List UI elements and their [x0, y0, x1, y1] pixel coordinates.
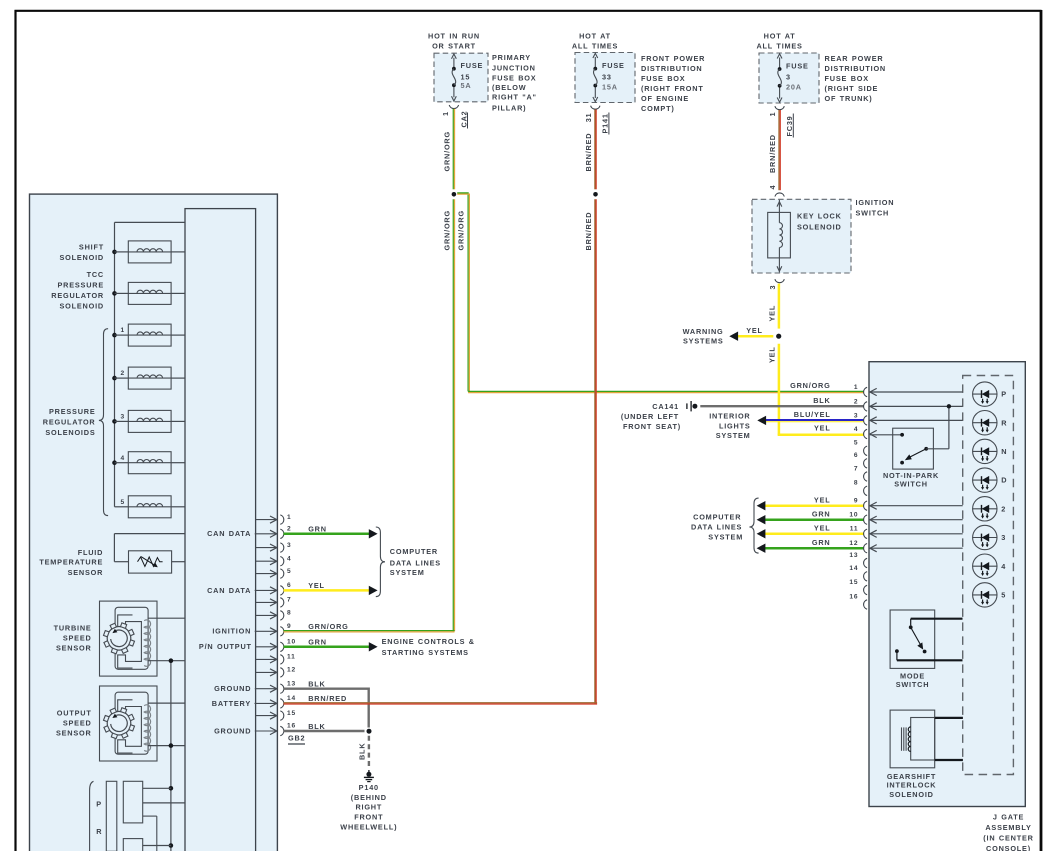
svg-text:CONSOLE): CONSOLE) [986, 844, 1031, 851]
svg-text:DISTRIBUTION: DISTRIBUTION [641, 64, 703, 73]
ignition switch box [752, 199, 851, 273]
svg-text:SPEED: SPEED [63, 718, 92, 727]
svg-text:BATTERY: BATTERY [212, 699, 251, 708]
J gate pin 12 [849, 540, 962, 553]
svg-text:R: R [96, 827, 102, 836]
output speed sensor [56, 686, 185, 761]
TCM pin 11 [256, 654, 296, 665]
svg-text:8: 8 [287, 610, 291, 617]
TCM internal common rail [170, 661, 172, 851]
svg-text:DISTRIBUTION: DISTRIBUTION [825, 64, 887, 73]
wire YEL down then right to J gate pin 4 [778, 344, 781, 435]
svg-text:14: 14 [287, 695, 296, 702]
LED 5 [973, 583, 1007, 607]
svg-text:5: 5 [854, 440, 858, 447]
svg-text:PILLAR): PILLAR) [492, 104, 526, 113]
svg-text:J GATE: J GATE [993, 813, 1024, 822]
svg-text:P: P [1001, 390, 1007, 399]
svg-text:CAN DATA: CAN DATA [207, 586, 251, 595]
wire BLK from TCM pin 13 [284, 689, 369, 728]
svg-text:PRESSURE: PRESSURE [57, 281, 104, 290]
LED D [973, 468, 1008, 492]
svg-text:YEL: YEL [814, 496, 831, 505]
svg-text:1: 1 [854, 384, 858, 391]
TCM pin 4 [256, 555, 292, 566]
J gate pin 3 [854, 412, 963, 425]
TCC pressure regulator solenoid [51, 270, 185, 311]
svg-text:INTERLOCK: INTERLOCK [887, 781, 937, 790]
svg-text:RIGHT "A": RIGHT "A" [492, 93, 537, 102]
svg-text:YEL: YEL [308, 581, 325, 590]
splice on YEL [776, 334, 781, 339]
wire YEL from ignition switch to splice [778, 284, 781, 329]
svg-text:BLU/YEL: BLU/YEL [794, 410, 831, 419]
TCM pin 2 [207, 525, 291, 538]
junction on pin 2 wire [947, 404, 951, 408]
svg-text:12: 12 [287, 667, 296, 674]
TCM pin 10 [199, 638, 296, 651]
fuse F15 5A symbol [453, 58, 455, 69]
svg-text:HOT AT: HOT AT [764, 31, 796, 40]
wire BRN/RED from fuse F3 to ignition switch [778, 110, 780, 190]
fuse box F2 (front power distribution fuse box) [575, 53, 635, 103]
J gate pin 8 [854, 480, 867, 496]
wire GRN/ORG from TCM pin 9 (horizontal) [284, 630, 455, 632]
svg-text:12: 12 [849, 540, 858, 547]
connector at fuse F15 output, pin 1, net CA2 [449, 105, 458, 109]
J gate pin 5 [854, 440, 867, 456]
TCM pin 6 [207, 582, 291, 595]
TCM pin 8 [256, 610, 292, 621]
svg-text:LIGHTS: LIGHTS [719, 422, 751, 431]
svg-text:BRN/RED: BRN/RED [584, 212, 593, 251]
svg-text:HOT AT: HOT AT [579, 31, 611, 40]
svg-text:FLUID: FLUID [78, 548, 103, 557]
svg-text:11: 11 [287, 654, 296, 661]
svg-text:16: 16 [287, 723, 296, 730]
svg-text:SENSOR: SENSOR [56, 728, 92, 737]
LED 2 [973, 497, 1007, 521]
LED 3 [973, 525, 1007, 549]
fuse box F3 (rear power distribution fuse box) [759, 53, 819, 103]
svg-text:6: 6 [854, 452, 858, 459]
svg-text:GRN: GRN [308, 525, 327, 534]
TCM pin 13 [214, 680, 296, 693]
svg-text:20A: 20A [786, 83, 802, 92]
pressure regulator solenoid 5 [115, 496, 186, 518]
svg-text:GROUND: GROUND [214, 726, 251, 735]
fuse box F1 (primary junction fuse box) [434, 53, 488, 102]
svg-text:D: D [1001, 476, 1007, 485]
svg-text:IGNITION: IGNITION [212, 627, 251, 636]
svg-text:SOLENOID: SOLENOID [59, 253, 104, 262]
gear switch contact P [123, 781, 142, 823]
svg-text:GRN/ORG: GRN/ORG [443, 131, 452, 171]
LED 4 [973, 554, 1007, 578]
J gate pin 11 [850, 526, 963, 539]
svg-text:REGULATOR: REGULATOR [43, 418, 96, 427]
J gate pin 6 [854, 452, 867, 468]
svg-text:3: 3 [287, 542, 291, 549]
TCM pin 14 [212, 695, 296, 708]
wire GRN from J gate pin 10 [765, 518, 864, 521]
svg-text:FRONT POWER: FRONT POWER [641, 54, 705, 63]
svg-text:(BELOW: (BELOW [492, 83, 526, 92]
svg-text:15: 15 [849, 579, 858, 586]
wire BRN/RED down to TCM pin 14 [594, 199, 596, 703]
svg-text:SHIFT: SHIFT [79, 242, 104, 251]
svg-text:BLK: BLK [308, 722, 325, 731]
svg-text:15: 15 [287, 710, 296, 717]
TCM pin 3 [256, 542, 292, 553]
TCM pin 1 [256, 514, 292, 525]
svg-text:PRESSURE: PRESSURE [49, 407, 96, 416]
svg-text:GROUND: GROUND [214, 684, 251, 693]
svg-text:5A: 5A [461, 81, 472, 90]
svg-text:11: 11 [850, 526, 859, 533]
svg-text:4: 4 [854, 426, 858, 433]
svg-text:HOT IN RUN: HOT IN RUN [428, 31, 480, 40]
svg-text:2: 2 [287, 525, 291, 532]
svg-text:FUSE: FUSE [461, 61, 484, 70]
svg-text:SOLENOIDS: SOLENOIDS [45, 428, 95, 437]
svg-text:R: R [1001, 418, 1007, 427]
J gate pin 7 [854, 465, 867, 481]
solenoid supply bus [115, 221, 186, 223]
TCM outer box [30, 194, 278, 851]
wire GRN/ORG from fuse F15 to splice [452, 109, 454, 190]
svg-text:9: 9 [287, 623, 291, 630]
svg-text:BRN/RED: BRN/RED [308, 694, 347, 703]
svg-text:16: 16 [849, 593, 858, 600]
J gate pin 16 [849, 593, 867, 609]
svg-text:9: 9 [854, 498, 858, 505]
TCM pin 9 [212, 623, 291, 636]
connector at fuse F3 output, pin 1, net FC39 [775, 106, 784, 110]
svg-text:GRN/ORG: GRN/ORG [443, 210, 452, 250]
svg-text:3: 3 [854, 412, 858, 419]
J gate pin 15 [849, 579, 867, 595]
svg-text:OR START: OR START [432, 42, 476, 51]
svg-text:P: P [96, 800, 102, 809]
wire BLU/YEL from J gate pin 3 to interior lights system [766, 419, 864, 421]
svg-text:7: 7 [287, 597, 291, 604]
svg-text:FRONT: FRONT [354, 813, 383, 822]
key lock solenoid U1 [768, 212, 791, 258]
wire BRN/RED from TCM pin 14 (horizontal) [284, 702, 598, 704]
svg-text:FC39: FC39 [785, 115, 794, 136]
pin 3 of ignition switch [775, 279, 784, 283]
svg-text:COMPT): COMPT) [641, 104, 675, 113]
svg-text:CAN DATA: CAN DATA [207, 529, 251, 538]
svg-text:SYSTEM: SYSTEM [708, 533, 743, 542]
svg-text:GRN: GRN [308, 638, 327, 647]
svg-text:REAR POWER: REAR POWER [825, 54, 884, 63]
svg-text:SOLENOID: SOLENOID [797, 223, 842, 232]
svg-text:10: 10 [849, 512, 858, 519]
svg-text:BRN/RED: BRN/RED [768, 134, 777, 173]
svg-text:ASSEMBLY: ASSEMBLY [985, 823, 1031, 832]
fuse F3 20A symbol [779, 58, 781, 70]
J gate pin 10 [849, 512, 962, 525]
svg-text:INTERIOR: INTERIOR [709, 412, 750, 421]
svg-text:(RIGHT FRONT: (RIGHT FRONT [641, 84, 704, 93]
svg-text:4: 4 [121, 455, 125, 462]
svg-text:KEY LOCK: KEY LOCK [797, 211, 842, 220]
svg-text:GRN: GRN [812, 510, 831, 519]
svg-text:(IN CENTER: (IN CENTER [983, 834, 1033, 843]
svg-text:TEMPERATURE: TEMPERATURE [39, 558, 103, 567]
TCM pin 7 [256, 597, 292, 608]
svg-text:SPEED: SPEED [63, 634, 92, 643]
svg-text:FUSE BOX: FUSE BOX [825, 74, 869, 83]
pressure regulator solenoids brace [99, 329, 108, 516]
svg-text:SENSOR: SENSOR [56, 644, 92, 653]
svg-text:CA2: CA2 [459, 111, 468, 128]
svg-text:SWITCH: SWITCH [856, 209, 890, 218]
svg-text:GRN/ORG: GRN/ORG [457, 210, 466, 250]
svg-text:SYSTEMS: SYSTEMS [683, 337, 723, 346]
fuse F33 15A symbol [594, 57, 596, 69]
svg-text:3: 3 [786, 73, 791, 82]
svg-text:IGNITION: IGNITION [856, 198, 895, 207]
wire YEL from J gate pin 9 to computer data lines [765, 504, 864, 507]
svg-text:FUSE: FUSE [602, 61, 625, 70]
J gate pin 14 [849, 565, 867, 581]
svg-text:31: 31 [584, 113, 593, 123]
svg-text:FUSE BOX: FUSE BOX [641, 74, 685, 83]
TCM pin 12 [256, 667, 296, 678]
svg-text:YEL: YEL [768, 346, 777, 363]
svg-text:N: N [1001, 447, 1007, 456]
svg-text:TURBINE: TURBINE [54, 624, 92, 633]
svg-text:FUSE BOX: FUSE BOX [492, 73, 536, 82]
svg-text:5: 5 [287, 568, 291, 575]
svg-text:15A: 15A [602, 82, 618, 91]
svg-text:CA141: CA141 [652, 402, 679, 411]
svg-text:4: 4 [287, 555, 291, 562]
pressure regulator solenoid 3 [112, 410, 185, 432]
svg-text:GRN/ORG: GRN/ORG [308, 622, 348, 631]
svg-text:WARNING: WARNING [683, 327, 724, 336]
svg-text:ALL TIMES: ALL TIMES [572, 42, 618, 51]
svg-text:REGULATOR: REGULATOR [51, 291, 104, 300]
svg-text:YEL: YEL [768, 305, 777, 322]
J gate pin 9 [854, 498, 963, 511]
shift solenoid [59, 241, 185, 263]
svg-text:3: 3 [768, 285, 777, 290]
computer data lines system brace (right) [749, 498, 758, 553]
TCM pin 15 [256, 710, 296, 721]
wire YEL to warning systems [738, 335, 774, 338]
svg-text:14: 14 [849, 565, 858, 572]
gear position switch bracket [90, 781, 94, 851]
wire GRN/ORG down to TCM pin 9 [452, 199, 454, 631]
svg-text:1: 1 [121, 327, 125, 334]
ground G1 (P140) [366, 772, 371, 777]
svg-text:SWITCH: SWITCH [894, 479, 928, 488]
connector CA141 [686, 403, 688, 409]
svg-text:BLK: BLK [358, 743, 367, 760]
gear selector common strip [106, 781, 117, 851]
svg-text:FRONT SEAT): FRONT SEAT) [623, 422, 681, 431]
svg-text:1: 1 [441, 111, 450, 116]
svg-text:GRN/ORG: GRN/ORG [790, 381, 830, 390]
svg-text:7: 7 [854, 465, 858, 472]
J gate internal dashed box [963, 376, 1014, 775]
svg-text:8: 8 [854, 480, 858, 487]
pressure regulator solenoid 1 [112, 324, 185, 346]
LED P [973, 382, 1007, 406]
svg-text:P/N OUTPUT: P/N OUTPUT [199, 642, 252, 651]
svg-text:BRN/RED: BRN/RED [584, 133, 593, 172]
wire GRN from TCM pin 10 to engine controls [284, 646, 370, 649]
svg-text:5: 5 [1001, 591, 1006, 600]
svg-text:4: 4 [1001, 562, 1006, 571]
svg-text:P140: P140 [359, 783, 379, 792]
splice of BLK ground wires [367, 729, 372, 734]
J gate pin 1 [854, 384, 963, 397]
J gate pin 13 [849, 552, 867, 568]
svg-text:(UNDER LEFT: (UNDER LEFT [621, 412, 679, 421]
svg-text:FUSE: FUSE [786, 62, 809, 71]
svg-text:2: 2 [1001, 504, 1006, 513]
wire BLK from connector CA141 to J gate pin 2 [700, 405, 863, 407]
pressure regulator solenoid 2 [112, 367, 185, 389]
J gate pin 4 [854, 426, 902, 439]
TCM inner connector box [185, 209, 256, 851]
svg-text:33: 33 [602, 72, 612, 81]
svg-text:COMPUTER: COMPUTER [693, 513, 741, 522]
not-in-park switch [883, 409, 949, 489]
J gate assembly box [869, 362, 1025, 807]
svg-text:4: 4 [768, 185, 777, 190]
svg-text:2: 2 [121, 370, 125, 377]
turbine speed sensor [54, 601, 185, 676]
wire GRN from J gate pin 12 [765, 547, 864, 550]
wire BLK from TCM pin 16 [284, 730, 365, 732]
svg-text:P141: P141 [601, 113, 610, 133]
svg-text:YEL: YEL [746, 326, 763, 335]
J gate pin 2 [854, 398, 963, 411]
svg-text:JUNCTION: JUNCTION [492, 63, 536, 72]
connector at fuse F33 output, pin 31, net P141 [591, 106, 600, 110]
TCM pin 5 [256, 568, 292, 579]
svg-text:1: 1 [287, 514, 291, 521]
svg-text:13: 13 [287, 680, 296, 687]
svg-text:DATA LINES: DATA LINES [390, 558, 441, 567]
svg-text:RIGHT: RIGHT [355, 803, 382, 812]
LED N [973, 439, 1008, 463]
svg-text:STARTING SYSTEMS: STARTING SYSTEMS [382, 648, 469, 657]
svg-text:OF TRUNK): OF TRUNK) [825, 94, 873, 103]
pressure regulator solenoid 4 [112, 452, 185, 474]
splice on BRN/RED [593, 192, 598, 197]
fluid temperature sensor [39, 534, 185, 577]
svg-text:2: 2 [854, 398, 858, 405]
svg-text:SYSTEM: SYSTEM [716, 431, 751, 440]
svg-text:ENGINE CONTROLS &: ENGINE CONTROLS & [382, 637, 475, 646]
svg-text:BLK: BLK [308, 680, 325, 689]
wire YEL from J gate pin 11 [765, 533, 864, 536]
svg-text:5: 5 [121, 499, 125, 506]
svg-text:3: 3 [1001, 533, 1006, 542]
svg-text:ALL TIMES: ALL TIMES [756, 42, 802, 51]
LED R [973, 411, 1008, 435]
svg-text:COMPUTER: COMPUTER [390, 547, 438, 556]
svg-text:OF ENGINE: OF ENGINE [641, 94, 689, 103]
dashed BLK wire to ground [368, 736, 370, 766]
wire GRN from TCM pin 2 to computer data lines [284, 533, 370, 536]
gearshift interlock solenoid [887, 710, 963, 799]
svg-text:1: 1 [768, 112, 777, 117]
svg-text:SENSOR: SENSOR [68, 568, 104, 577]
svg-text:YEL: YEL [814, 423, 831, 432]
mode switch [890, 610, 962, 689]
svg-text:(BEHIND: (BEHIND [351, 793, 387, 802]
svg-text:WHEELWELL): WHEELWELL) [340, 823, 397, 832]
svg-text:13: 13 [849, 552, 858, 559]
svg-text:6: 6 [287, 582, 291, 589]
svg-text:SYSTEM: SYSTEM [390, 568, 425, 577]
svg-text:DATA LINES: DATA LINES [691, 522, 742, 531]
wire GRN/ORG branch to J gate pin 1 [457, 193, 468, 392]
svg-text:SOLENOID: SOLENOID [889, 790, 934, 799]
svg-text:BLK: BLK [813, 396, 830, 405]
svg-text:PRIMARY: PRIMARY [492, 53, 531, 62]
splice junction on GRN/ORG [452, 192, 457, 197]
svg-text:SOLENOID: SOLENOID [59, 302, 104, 311]
svg-text:OUTPUT: OUTPUT [57, 709, 92, 718]
svg-text:3: 3 [121, 414, 125, 421]
svg-text:YEL: YEL [814, 524, 831, 533]
svg-text:10: 10 [287, 638, 296, 645]
svg-text:(RIGHT SIDE: (RIGHT SIDE [825, 84, 879, 93]
wire BRN/RED from fuse F33 to splice [594, 110, 596, 190]
svg-text:GRN: GRN [812, 538, 831, 547]
wire YEL from TCM pin 6 [284, 589, 370, 592]
svg-text:SWITCH: SWITCH [896, 680, 930, 689]
svg-text:TCC: TCC [87, 270, 104, 279]
svg-text:GB2: GB2 [288, 734, 305, 743]
TCM pin 16 [214, 723, 296, 736]
border frame [14, 10, 16, 851]
computer data lines system brace (left) [376, 527, 385, 597]
gear switch contact R [123, 839, 142, 851]
